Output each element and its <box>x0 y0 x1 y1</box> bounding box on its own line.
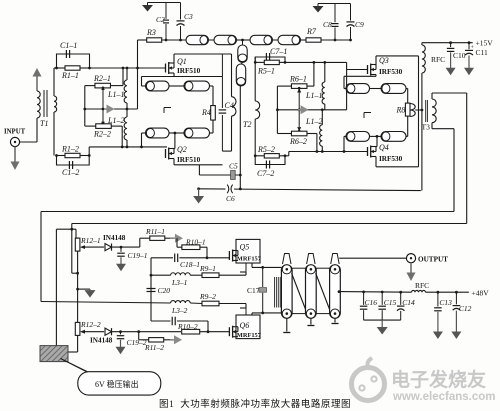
svg-text:R12–1: R12–1 <box>80 236 101 245</box>
resistor R3 <box>138 28 187 42</box>
inductor L3-1 <box>171 273 191 287</box>
svg-text:6V 稳压输出: 6V 稳压输出 <box>95 379 139 389</box>
svg-text:C10: C10 <box>453 51 466 60</box>
wire R3 to bus <box>137 40 139 68</box>
capacitor C7-2 <box>255 156 285 178</box>
wire tube tops <box>292 267 330 269</box>
wire T3 sec bottom <box>432 129 454 212</box>
Q5 source stub <box>245 263 247 272</box>
resistor R1-2 <box>57 145 90 158</box>
svg-text:Q3: Q3 <box>379 56 389 65</box>
resistor R2-1 <box>93 74 111 91</box>
svg-text:R7: R7 <box>306 27 317 36</box>
wire top rail right <box>318 3 351 5</box>
resistor R5-2 <box>255 145 285 158</box>
svg-text:C1–1: C1–1 <box>60 41 77 50</box>
wiper arrow R12-1 <box>80 245 104 249</box>
transformer T3 primary <box>410 104 415 117</box>
wire tube bottoms <box>292 313 330 315</box>
svg-text:C1–2: C1–2 <box>62 168 79 177</box>
svg-text:R2–1: R2–1 <box>93 74 111 83</box>
transformer T2 right winding <box>255 57 259 156</box>
svg-text:C17: C17 <box>247 286 260 295</box>
wire Q5 drain to tube1 <box>252 263 281 269</box>
wire B2 to chain <box>237 39 251 42</box>
tube W3 <box>330 265 341 318</box>
svg-text:C12: C12 <box>459 304 472 313</box>
ground arrow OUTPUT <box>407 263 416 281</box>
INPUT label <box>4 129 26 136</box>
capacitor C1-1 <box>57 41 90 68</box>
junction dots R1-1 <box>55 67 91 70</box>
transformer T3 core <box>426 100 428 122</box>
wire B13-B14 <box>370 135 382 138</box>
svg-text:IRF530: IRF530 <box>379 68 403 76</box>
svg-text:R9–1: R9–1 <box>199 264 216 273</box>
ferrite bead B3 <box>250 35 273 44</box>
capacitor C18-2 <box>172 317 209 333</box>
svg-text:L1–2: L1–2 <box>305 117 322 126</box>
6V regulator box <box>40 346 68 362</box>
svg-text:IN4148: IN4148 <box>90 337 113 345</box>
ground arrow below input <box>11 147 20 170</box>
wire top rail left <box>148 2 181 4</box>
antenna arrow above T1 <box>33 68 42 91</box>
balloon pointer <box>61 359 101 379</box>
ferrite bead B7 <box>146 81 170 91</box>
resistor R12-2 <box>75 320 101 335</box>
transistor Q6 MRF157 <box>229 315 261 339</box>
bias row arrow right <box>298 105 309 114</box>
label T3 <box>422 123 431 132</box>
svg-text:图1 大功率射频脉冲功率放大器电路原理图: 图1 大功率射频脉冲功率放大器电路原理图 <box>159 398 351 410</box>
resistor R7 <box>306 27 321 42</box>
tube W1 top loop <box>283 254 292 265</box>
wire C6 row <box>197 187 421 190</box>
watermark elecfans <box>352 358 496 403</box>
svg-text:R2–2: R2–2 <box>93 130 111 139</box>
transistor Q5 MRF157 <box>229 239 261 263</box>
inductor L2-2 <box>305 110 322 152</box>
svg-text:R11–2: R11–2 <box>144 343 164 352</box>
figure caption <box>159 398 351 410</box>
wire R10-1 down <box>206 247 209 259</box>
wire row2 left down <box>142 133 147 147</box>
INPUT connector J1 <box>10 137 19 146</box>
transformer T1 primary <box>37 91 40 118</box>
RFC choke upper <box>422 43 445 191</box>
wire Q1 source <box>142 73 223 77</box>
svg-text:L3–2: L3–2 <box>171 306 188 315</box>
svg-text:C15: C15 <box>384 298 397 307</box>
svg-text:www.elecfans.com: www.elecfans.com <box>392 391 495 403</box>
wire C5 row <box>199 165 241 177</box>
wire Q4 gate bus <box>285 150 368 156</box>
transistor Q2 <box>166 145 201 164</box>
center bias row <box>83 108 137 111</box>
OUTPUT label <box>418 256 448 264</box>
svg-text:R1–2: R1–2 <box>61 145 79 154</box>
svg-text:OUTPUT: OUTPUT <box>418 256 448 264</box>
capacitor C18-1 <box>151 254 229 269</box>
ferrite bead B13 <box>346 132 370 142</box>
svg-text:R10–1: R10–1 <box>185 238 206 247</box>
capacitor C15 <box>378 291 396 321</box>
resistor R4 <box>201 86 215 120</box>
wire B9-B10 <box>169 132 184 135</box>
svg-text:IRF530: IRF530 <box>379 155 403 163</box>
tube W2 bottom circle <box>306 309 315 318</box>
transformer T3 secondary <box>432 93 436 129</box>
inductor L2-1 <box>305 61 326 110</box>
wire row1r left <box>344 76 348 88</box>
svg-text:R8: R8 <box>396 106 406 115</box>
svg-text:Q5: Q5 <box>240 243 250 252</box>
svg-text:C16: C16 <box>365 298 378 307</box>
wire row B left drop <box>71 224 73 274</box>
resistor R5-1 <box>255 60 285 75</box>
capacitor C7-1 <box>255 47 287 62</box>
wire B11-B12 <box>370 88 382 90</box>
capacitor C19-2 <box>116 332 147 355</box>
wire R2-1 left <box>85 86 96 127</box>
resistor R1-1 <box>57 66 90 80</box>
wire diode2 to node <box>112 330 182 333</box>
svg-text:R6–1: R6–1 <box>289 75 307 84</box>
resistor R9-2 <box>190 292 246 306</box>
T3 center tap <box>415 109 423 112</box>
inductor L1-1 left <box>107 68 127 109</box>
wire node2 down to R11-2 <box>138 332 140 340</box>
wire node up to R11-1 <box>139 238 141 247</box>
capacitor C10 <box>446 43 466 75</box>
wire R12-2 down <box>68 335 78 352</box>
wire bus2 to R1-2 <box>88 147 90 156</box>
svg-text:IN4148: IN4148 <box>103 234 126 242</box>
wire inner box right <box>222 54 231 151</box>
tube W2 stub <box>307 318 314 325</box>
capacitor C12 <box>451 292 471 339</box>
capacitor C6 <box>226 184 236 203</box>
winding diagonal 1 <box>292 273 307 311</box>
svg-text:RFC: RFC <box>431 55 445 64</box>
tube W1 stub <box>283 318 290 332</box>
wire R6-1 left <box>277 86 291 133</box>
wiper arrow R12-2 <box>80 330 104 334</box>
ferrite bead B9 <box>146 128 170 138</box>
wire R7 right <box>321 39 352 42</box>
tube W3 top circle <box>330 265 339 274</box>
resistor R12-1 <box>75 229 100 251</box>
svg-text:R3: R3 <box>146 28 156 37</box>
svg-text:C2: C2 <box>156 15 165 24</box>
svg-text:C19–1: C19–1 <box>128 251 148 260</box>
svg-text:+48V: +48V <box>472 289 490 298</box>
capacitor C9 <box>347 4 365 41</box>
center bias row right <box>276 108 347 111</box>
svg-text:C18–1: C18–1 <box>180 260 200 269</box>
svg-text:R11–1: R11–1 <box>145 227 165 236</box>
wire R2-2 right <box>111 126 122 147</box>
wire Q2 drain <box>173 133 176 149</box>
ground G1 <box>142 3 153 12</box>
svg-text:Q2: Q2 <box>177 145 187 154</box>
wire B5-B6 <box>241 63 243 65</box>
RFC choke lower <box>412 281 430 292</box>
wire feedback row B <box>72 223 467 225</box>
svg-text:Q4: Q4 <box>379 143 389 152</box>
tube W2 top loop <box>307 254 316 265</box>
wire R12-1 down <box>76 251 79 322</box>
junction dots R5-2 <box>254 154 287 157</box>
wire Q3 source <box>344 75 376 77</box>
wire B3-B4 <box>273 39 279 41</box>
tube W3 bottom circle <box>330 309 339 318</box>
wire arrow to R10-1 <box>177 238 182 247</box>
wire 48V rail left <box>338 290 412 293</box>
transistor Q4 <box>368 143 403 163</box>
wire box right edge <box>418 56 420 167</box>
wire gate bus Q2 <box>89 146 167 149</box>
svg-text:R12–2: R12–2 <box>80 320 101 329</box>
svg-text:R5–1: R5–1 <box>257 67 275 76</box>
svg-text:L3–1: L3–1 <box>171 278 187 287</box>
svg-text:C3: C3 <box>184 12 193 21</box>
ferrite bead B2 <box>214 35 237 44</box>
svg-text:R6–2: R6–2 <box>289 137 307 146</box>
svg-text:C11: C11 <box>476 48 488 57</box>
label +15V <box>476 39 494 48</box>
wire 15V rail <box>422 41 473 44</box>
capacitor C20 <box>147 286 171 295</box>
capacitor C17 <box>247 267 267 313</box>
ferrite bead B14 <box>381 132 406 142</box>
capacitor C1-2 <box>57 156 90 178</box>
inductor L1-2 left <box>107 109 127 147</box>
capacitor C2 <box>156 3 169 41</box>
ferrite bead B4 <box>278 35 301 44</box>
ground jog R12-1 <box>78 289 96 298</box>
wire R6-1 right <box>307 61 315 86</box>
junction R6 wiper <box>298 87 301 133</box>
wire lower left bus <box>150 258 152 321</box>
ground G2 <box>313 4 324 13</box>
junction R2-1 wiper <box>102 87 105 126</box>
wire row2 right <box>210 132 214 134</box>
transistor Q3 <box>368 56 403 76</box>
bias row arrow <box>104 105 115 114</box>
wire Q6 drain to tube1 <box>252 312 281 316</box>
svg-text:电子发烧友: 电子发烧友 <box>391 368 486 391</box>
svg-text:R10–2: R10–2 <box>177 322 198 331</box>
resistor R11-2 <box>139 338 170 352</box>
svg-text:T2: T2 <box>243 120 251 129</box>
svg-text:R5–2: R5–2 <box>257 145 275 154</box>
wire row1 to R4 <box>210 85 214 87</box>
wire R8 bottom <box>407 116 409 136</box>
wire bottom row <box>41 302 171 304</box>
ferrite bead B11 <box>346 84 370 94</box>
svg-text:C20: C20 <box>158 286 171 295</box>
transformer T2 left winding <box>232 97 237 116</box>
resistor R8 <box>396 103 411 116</box>
wire diode to node <box>112 246 140 249</box>
label T2 <box>243 120 251 129</box>
wire R2-1 right <box>110 68 123 86</box>
capacitor C4 <box>219 101 234 113</box>
wire gate bus Q1 <box>90 67 166 69</box>
wire L3-1 row left <box>150 274 171 277</box>
capacitor C14 <box>397 291 415 320</box>
capacitor C19-1 <box>116 247 148 271</box>
wire Q2 source <box>174 159 223 165</box>
inductor L3-2 <box>171 301 191 315</box>
node A wires <box>54 67 57 69</box>
wire gate bus Q3 <box>285 62 368 109</box>
svg-text:C8: C8 <box>323 20 332 29</box>
wire center to R3 foot <box>137 68 139 109</box>
ground arrow cap bank <box>377 320 388 334</box>
wire row2r right <box>406 135 408 137</box>
ferrite bead B12 <box>381 84 406 94</box>
tube W3 top loop <box>331 254 340 265</box>
transformer T1 secondary <box>54 68 57 156</box>
wire row2r down <box>344 136 348 151</box>
capacitor C16 <box>360 291 377 321</box>
tube W3 stub <box>332 318 339 323</box>
wire row1r to R8 <box>406 89 408 104</box>
Q6 source stub <box>245 308 247 315</box>
junction dots R5-1 <box>254 61 287 64</box>
wire outer left edge <box>40 212 42 302</box>
label T1 <box>40 119 48 128</box>
ferrite bead B5 vertical <box>238 40 247 63</box>
wire R9-2 to Q6 source <box>240 304 246 309</box>
tube W2 <box>306 265 317 318</box>
svg-text:MRF157: MRF157 <box>237 332 262 339</box>
winding diagonal 2 <box>316 273 330 311</box>
wire Q1 drain <box>174 54 232 63</box>
wire cap bank bus <box>364 319 401 321</box>
ferrite bead B8 <box>184 81 210 91</box>
svg-text:C14: C14 <box>402 298 415 307</box>
transistor Q1 <box>166 57 201 75</box>
capacitor C13 <box>433 292 452 339</box>
label +48V <box>472 289 490 298</box>
svg-text:+15V: +15V <box>476 39 494 48</box>
wire R4 bottom <box>212 120 214 133</box>
svg-text:R9–2: R9–2 <box>199 292 216 301</box>
svg-text:C9: C9 <box>355 20 364 29</box>
junction dots R3 row <box>165 39 182 42</box>
arrow R11-2 <box>170 335 182 344</box>
wire R6-2 right <box>307 134 317 152</box>
wire 6V feed stub <box>56 229 76 350</box>
svg-text:Q6: Q6 <box>240 321 250 330</box>
wire rowB to R12-1 <box>70 228 77 273</box>
svg-text:C4: C4 <box>225 101 234 110</box>
ferrite bead B10 <box>184 128 210 138</box>
wire R9-1 to Q5 source <box>240 272 246 275</box>
resistor R6-2 <box>289 127 307 146</box>
ferrite bead B1 <box>186 35 209 44</box>
wire input to T1 <box>20 118 37 142</box>
tube W2 top circle <box>306 265 315 274</box>
core hatch marks <box>275 277 283 308</box>
wire Q3 drain <box>376 56 419 65</box>
wire B1-B2 <box>209 39 215 41</box>
OUTPUT connector J2 <box>406 254 415 263</box>
capacitor C11 <box>464 43 488 75</box>
capacitor C3 <box>177 3 194 41</box>
junction dots R1-2 <box>55 154 91 157</box>
wire T3 sec top <box>432 93 467 224</box>
svg-text:C13: C13 <box>439 298 452 307</box>
tube W1 <box>281 265 292 318</box>
svg-text:L1–1: L1–1 <box>107 90 124 99</box>
svg-text:INPUT: INPUT <box>4 129 26 136</box>
wire to OUTPUT <box>339 257 406 259</box>
svg-text:L1–1: L1–1 <box>305 91 322 100</box>
wire Q4 source <box>376 157 419 167</box>
capacitor C5 <box>229 162 238 180</box>
svg-text:IRF510: IRF510 <box>177 67 201 75</box>
resistor R10-2 <box>177 322 229 334</box>
wire Q4 drain <box>376 136 377 146</box>
svg-text:MRF157: MRF157 <box>237 256 262 263</box>
resistor R2-2 <box>93 122 111 139</box>
ground arrow C6 <box>193 189 204 204</box>
wire row1 left <box>142 77 147 87</box>
svg-text:T1: T1 <box>40 119 48 128</box>
wire 48V rail right <box>426 291 469 294</box>
diode D1 IN4148 <box>103 234 126 251</box>
core mark M2 <box>364 113 371 119</box>
tube W1 bottom circle <box>282 309 291 318</box>
svg-text:R1–1: R1–1 <box>61 71 79 80</box>
wire B7-B8 <box>169 85 184 87</box>
wire B4-R7 <box>301 39 307 41</box>
svg-text:C5: C5 <box>229 162 238 171</box>
ferrite bead B6 vertical <box>236 64 245 86</box>
resistor R9-1 <box>190 264 246 278</box>
resistor R11-1 <box>140 227 170 240</box>
svg-text:T3: T3 <box>422 123 431 132</box>
svg-text:C6: C6 <box>226 194 235 203</box>
balloon 6V label <box>78 372 161 395</box>
arrow R11-1 <box>170 234 183 243</box>
core mark M1 <box>164 108 171 114</box>
wire C18-2 row <box>151 320 171 322</box>
svg-text:C7–2: C7–2 <box>257 169 274 178</box>
wire chain down <box>239 86 241 189</box>
svg-text:RFC: RFC <box>415 281 429 290</box>
diode D2 IN4148 <box>90 328 113 344</box>
transformer T1 core <box>44 90 47 117</box>
svg-text:Q1: Q1 <box>177 57 187 66</box>
resistor R6-1 <box>289 75 307 93</box>
junction dots bus1 <box>122 67 139 70</box>
svg-text:IRF510: IRF510 <box>177 156 201 164</box>
wire feedback row A <box>41 211 454 213</box>
resistor R10-1 <box>182 238 207 250</box>
tube W1 top circle <box>282 265 291 274</box>
svg-text:C7–1: C7–1 <box>270 47 287 56</box>
capacitor C8 <box>323 4 339 41</box>
svg-text:R4: R4 <box>201 108 211 117</box>
